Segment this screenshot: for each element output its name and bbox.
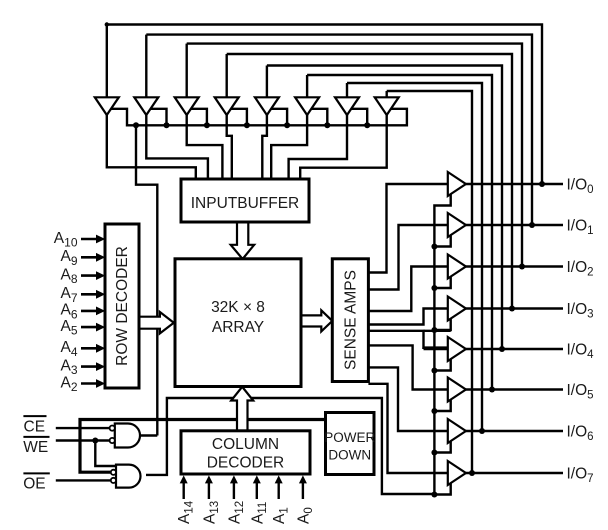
wire: I/O4 top bus from input buffer 5 to right-side drop (267, 66, 502, 350)
wire: output of top buffer 8 into INPUTBUFFER (300, 114, 387, 179)
wire: input stub into top buffer 2 (145, 35, 147, 99)
node: I/O0 junction dot (539, 181, 545, 187)
node: enable bus junction dot 6 (364, 122, 370, 128)
wire: address A5 input arrow (81, 326, 98, 329)
svg-text:OE: OE (23, 476, 45, 493)
wire: WE branch to gate G2 (95, 441, 116, 467)
node: OE bus junction dot 5 (431, 408, 437, 414)
wire: OE input line (56, 479, 110, 481)
wire: sense amp output to output buffer 3 (368, 309, 449, 325)
block: INPUTBUFFER (181, 179, 309, 222)
wire: enable stub of top buffer 7 (352, 109, 368, 126)
wire: sense amp output to output buffer 1 (368, 225, 449, 290)
wire: I/O6 line to pin (464, 430, 563, 432)
node: I/O4 junction dot (499, 346, 505, 352)
block: COLUMN DECODER (181, 431, 310, 474)
wire: input stub into top buffer 4 (225, 54, 227, 98)
node: enable bus junction dot 2 (204, 122, 210, 128)
svg-text:DECODER: DECODER (207, 455, 285, 472)
output buffer triangle 6 (I/O6) (448, 419, 466, 443)
wire: enable stub of top buffer 5 (271, 109, 287, 126)
wire: input-buffer enable bus (111, 109, 407, 126)
wire: address A4 input arrow (81, 347, 98, 350)
node: OE bus junction dot 6 (431, 450, 437, 456)
wire: sense amp output to output buffer 0 (368, 184, 449, 273)
node: OE bus junction dot 7 (431, 492, 437, 498)
label: CE (active low) (23, 415, 46, 417)
node: WE branch dot (92, 438, 98, 444)
wire: I/O7 top bus from input buffer 8 to right-side drop (387, 91, 472, 473)
wire: enable stub of output buffer 7 (434, 482, 450, 495)
node: OE bus junction dot 4 (431, 368, 437, 374)
svg-text:SENSE AMPS: SENSE AMPS (343, 270, 360, 370)
wire: enable stub of top buffer 2 (151, 109, 167, 126)
wire: I/O6 top bus from input buffer 7 to right-side drop (347, 83, 482, 431)
wire: enable stub of output buffer 3 (434, 318, 450, 331)
output buffer triangle 1 (I/O1) (448, 213, 466, 237)
wire: I/O1 top bus from input buffer 2 to right-side drop (146, 35, 532, 225)
arrow: ARRAY to SENSE AMPS (301, 310, 332, 331)
wire: enable stub of output buffer 6 (434, 440, 450, 453)
wire: gate G1 output stub (141, 434, 157, 436)
block: SENSE AMPS (332, 259, 368, 382)
wire: write-enable line from gate G1 up to input-buffer enable bus (136, 125, 157, 435)
arrow: INPUTBUFFER to ARRAY (231, 222, 255, 259)
wire: enable stub of output buffer 2 (434, 276, 450, 289)
output buffer triangle 0 (I/O0) (448, 172, 466, 196)
wire: address A9 input arrow (81, 256, 98, 259)
wire: sense amp output to output buffer 6 (368, 367, 449, 431)
gate G2 (read/output control AND gate) (116, 465, 141, 488)
block: ROW DECODER (105, 224, 139, 388)
input buffer triangle 6 (data-in) (295, 97, 319, 115)
svg-text:INPUTBUFFER: INPUTBUFFER (191, 195, 300, 212)
node: OE bus junction dot 1 (431, 244, 437, 250)
wire: enable stub of output buffer 1 (434, 234, 450, 247)
node: I/O7 junction dot (469, 470, 475, 476)
wire: address A2 input arrow (81, 382, 98, 385)
node: enable bus junction dot 4 (284, 122, 290, 128)
output buffer triangle 4 (I/O4) (448, 337, 466, 361)
wire: I/O5 line to pin (464, 388, 563, 390)
node: I/O1 junction dot (529, 222, 535, 228)
wire: I/O5 top bus from input buffer 6 to right-side drop (307, 75, 492, 390)
input buffer triangle 3 (data-in) (175, 97, 199, 115)
input buffer triangle 8 (data-in) (375, 97, 399, 115)
wire: address A14 input arrow (182, 483, 184, 499)
output buffer triangle 7 (I/O7) (448, 461, 466, 485)
node: enable bus junction dot 5 (324, 122, 330, 128)
input buffer triangle 4 (data-in) (215, 97, 239, 115)
wire: sense amp bottom output to output buffer 7 (368, 384, 449, 473)
wire: address A1 input arrow (278, 483, 280, 499)
wire: sense amp output to output buffer 4 (368, 331, 449, 348)
wire: input stub into top buffer 3 (185, 44, 187, 99)
node: I/O3 junction dot (509, 306, 515, 312)
node: OE bus junction dot 3 (431, 327, 437, 333)
wire: address A10 input arrow (81, 238, 98, 241)
wire: output of top buffer 2 into INPUTBUFFER (146, 114, 208, 179)
svg-text:CE: CE (24, 418, 46, 435)
svg-text:WE: WE (23, 439, 48, 456)
wire: address A0 input arrow (302, 483, 304, 499)
wire: I/O2 line to pin (464, 265, 563, 267)
input buffer triangle 2 (data-in) (134, 97, 158, 115)
node: corner junction dot on I/O0 top wire (105, 22, 109, 26)
wire: address A7 input arrow (81, 293, 98, 296)
input buffer triangle 5 (data-in) (255, 97, 279, 115)
wire: enable stub of top buffer 6 (312, 109, 328, 126)
wire: I/O0 top bus from input buffer 1 to right-side drop (107, 25, 542, 185)
node: I/O5 junction dot (489, 387, 495, 393)
wire: output-enable bus from gate G2 around to output buffers (146, 194, 451, 494)
arrow: ROW DECODER to ARRAY (139, 312, 174, 333)
wire: I/O3 line to pin (464, 307, 563, 309)
wire: CE input line (56, 427, 110, 429)
wire: input stub into top buffer 1 (106, 25, 108, 99)
wire: output of top buffer 1 into INPUTBUFFER (107, 114, 196, 179)
svg-text:ARRAY: ARRAY (212, 319, 264, 336)
svg-text:DOWN: DOWN (328, 448, 371, 463)
wire: enable stub of top buffer 3 (191, 109, 207, 126)
wire: sense amp output to output buffer 2 (368, 267, 449, 312)
wire: enable stub of top buffer 4 (231, 109, 247, 126)
wire: output of top buffer 3 into INPUTBUFFER (187, 114, 223, 179)
wire: output of top buffer 6 into INPUTBUFFER (271, 114, 307, 179)
svg-text:ROW DECODER: ROW DECODER (114, 246, 131, 366)
wire: input stub into top buffer 7 (346, 83, 348, 98)
input buffer triangle 1 (data-in) (95, 97, 119, 115)
wire: address A8 input arrow (81, 274, 98, 277)
wire: output of top buffer 4 into INPUTBUFFER (227, 114, 232, 179)
output buffer triangle 5 (I/O5) (448, 378, 466, 402)
wire: I/O1 line to pin (464, 224, 563, 226)
wire: address A3 input arrow (81, 365, 98, 368)
node: I/O2 junction dot (519, 264, 525, 270)
gate G1 (CE, WE write control AND gate) (115, 424, 140, 448)
node: enable bus junction dot 3 (244, 122, 250, 128)
wire: I/O3 top bus from input buffer 4 to right-side drop (227, 54, 512, 309)
wire: I/O2 top bus from input buffer 3 to right-side drop (187, 44, 522, 267)
wire: I/O7 line to pin (464, 472, 563, 474)
wire: output buffer 4 input link (422, 348, 424, 349)
wire: address A12 input arrow (233, 483, 235, 499)
wire: enable stub of output buffer 5 (434, 399, 450, 412)
wire: WE input line (56, 439, 110, 441)
wire: sense amp output to output buffer 5 (368, 345, 449, 389)
node: I/O6 junction dot (479, 428, 485, 434)
block: 32K x 8 ARRAY (175, 259, 301, 387)
wire: input stub into top buffer 8 (386, 91, 388, 98)
node: OE bus junction dot 2 (431, 285, 437, 291)
svg-text:POWER: POWER (324, 430, 375, 445)
wire: address A13 input arrow (208, 483, 210, 499)
wire: OE-bus link to output buffer 3 enable (424, 330, 451, 332)
wire: output of top buffer 5 into INPUTBUFFER (262, 114, 267, 179)
input buffer triangle 7 (data-in) (335, 97, 359, 115)
output buffer triangle 3 (I/O3) (448, 297, 466, 321)
label: OE (active low) (23, 472, 49, 474)
svg-text:32K × 8: 32K × 8 (211, 299, 265, 316)
wire: thick control line from G1 output node to POWER DOWN and gate G2 input (80, 420, 326, 473)
node: enable bus junction dot 1 (164, 122, 170, 128)
label: WE (active low) (23, 436, 49, 438)
node: enable-bus tap dot (133, 122, 139, 128)
wire: address A6 input arrow (81, 310, 98, 313)
wire: address A11 input arrow (256, 483, 258, 499)
wire: I/O4 line to pin (464, 348, 563, 350)
wire: input stub into top buffer 5 (266, 66, 268, 99)
block: POWER DOWN (326, 413, 375, 475)
svg-text:COLUMN: COLUMN (212, 436, 279, 453)
output buffer triangle 2 (I/O2) (448, 255, 466, 279)
wire: enable stub of output buffer 4 (434, 358, 450, 371)
wire: output of top buffer 7 into INPUTBUFFER (289, 114, 347, 179)
wire: input stub into top buffer 6 (306, 75, 308, 98)
wire: I/O0 line to pin (464, 183, 563, 185)
arrow: COLUMN DECODER to ARRAY (231, 387, 253, 431)
